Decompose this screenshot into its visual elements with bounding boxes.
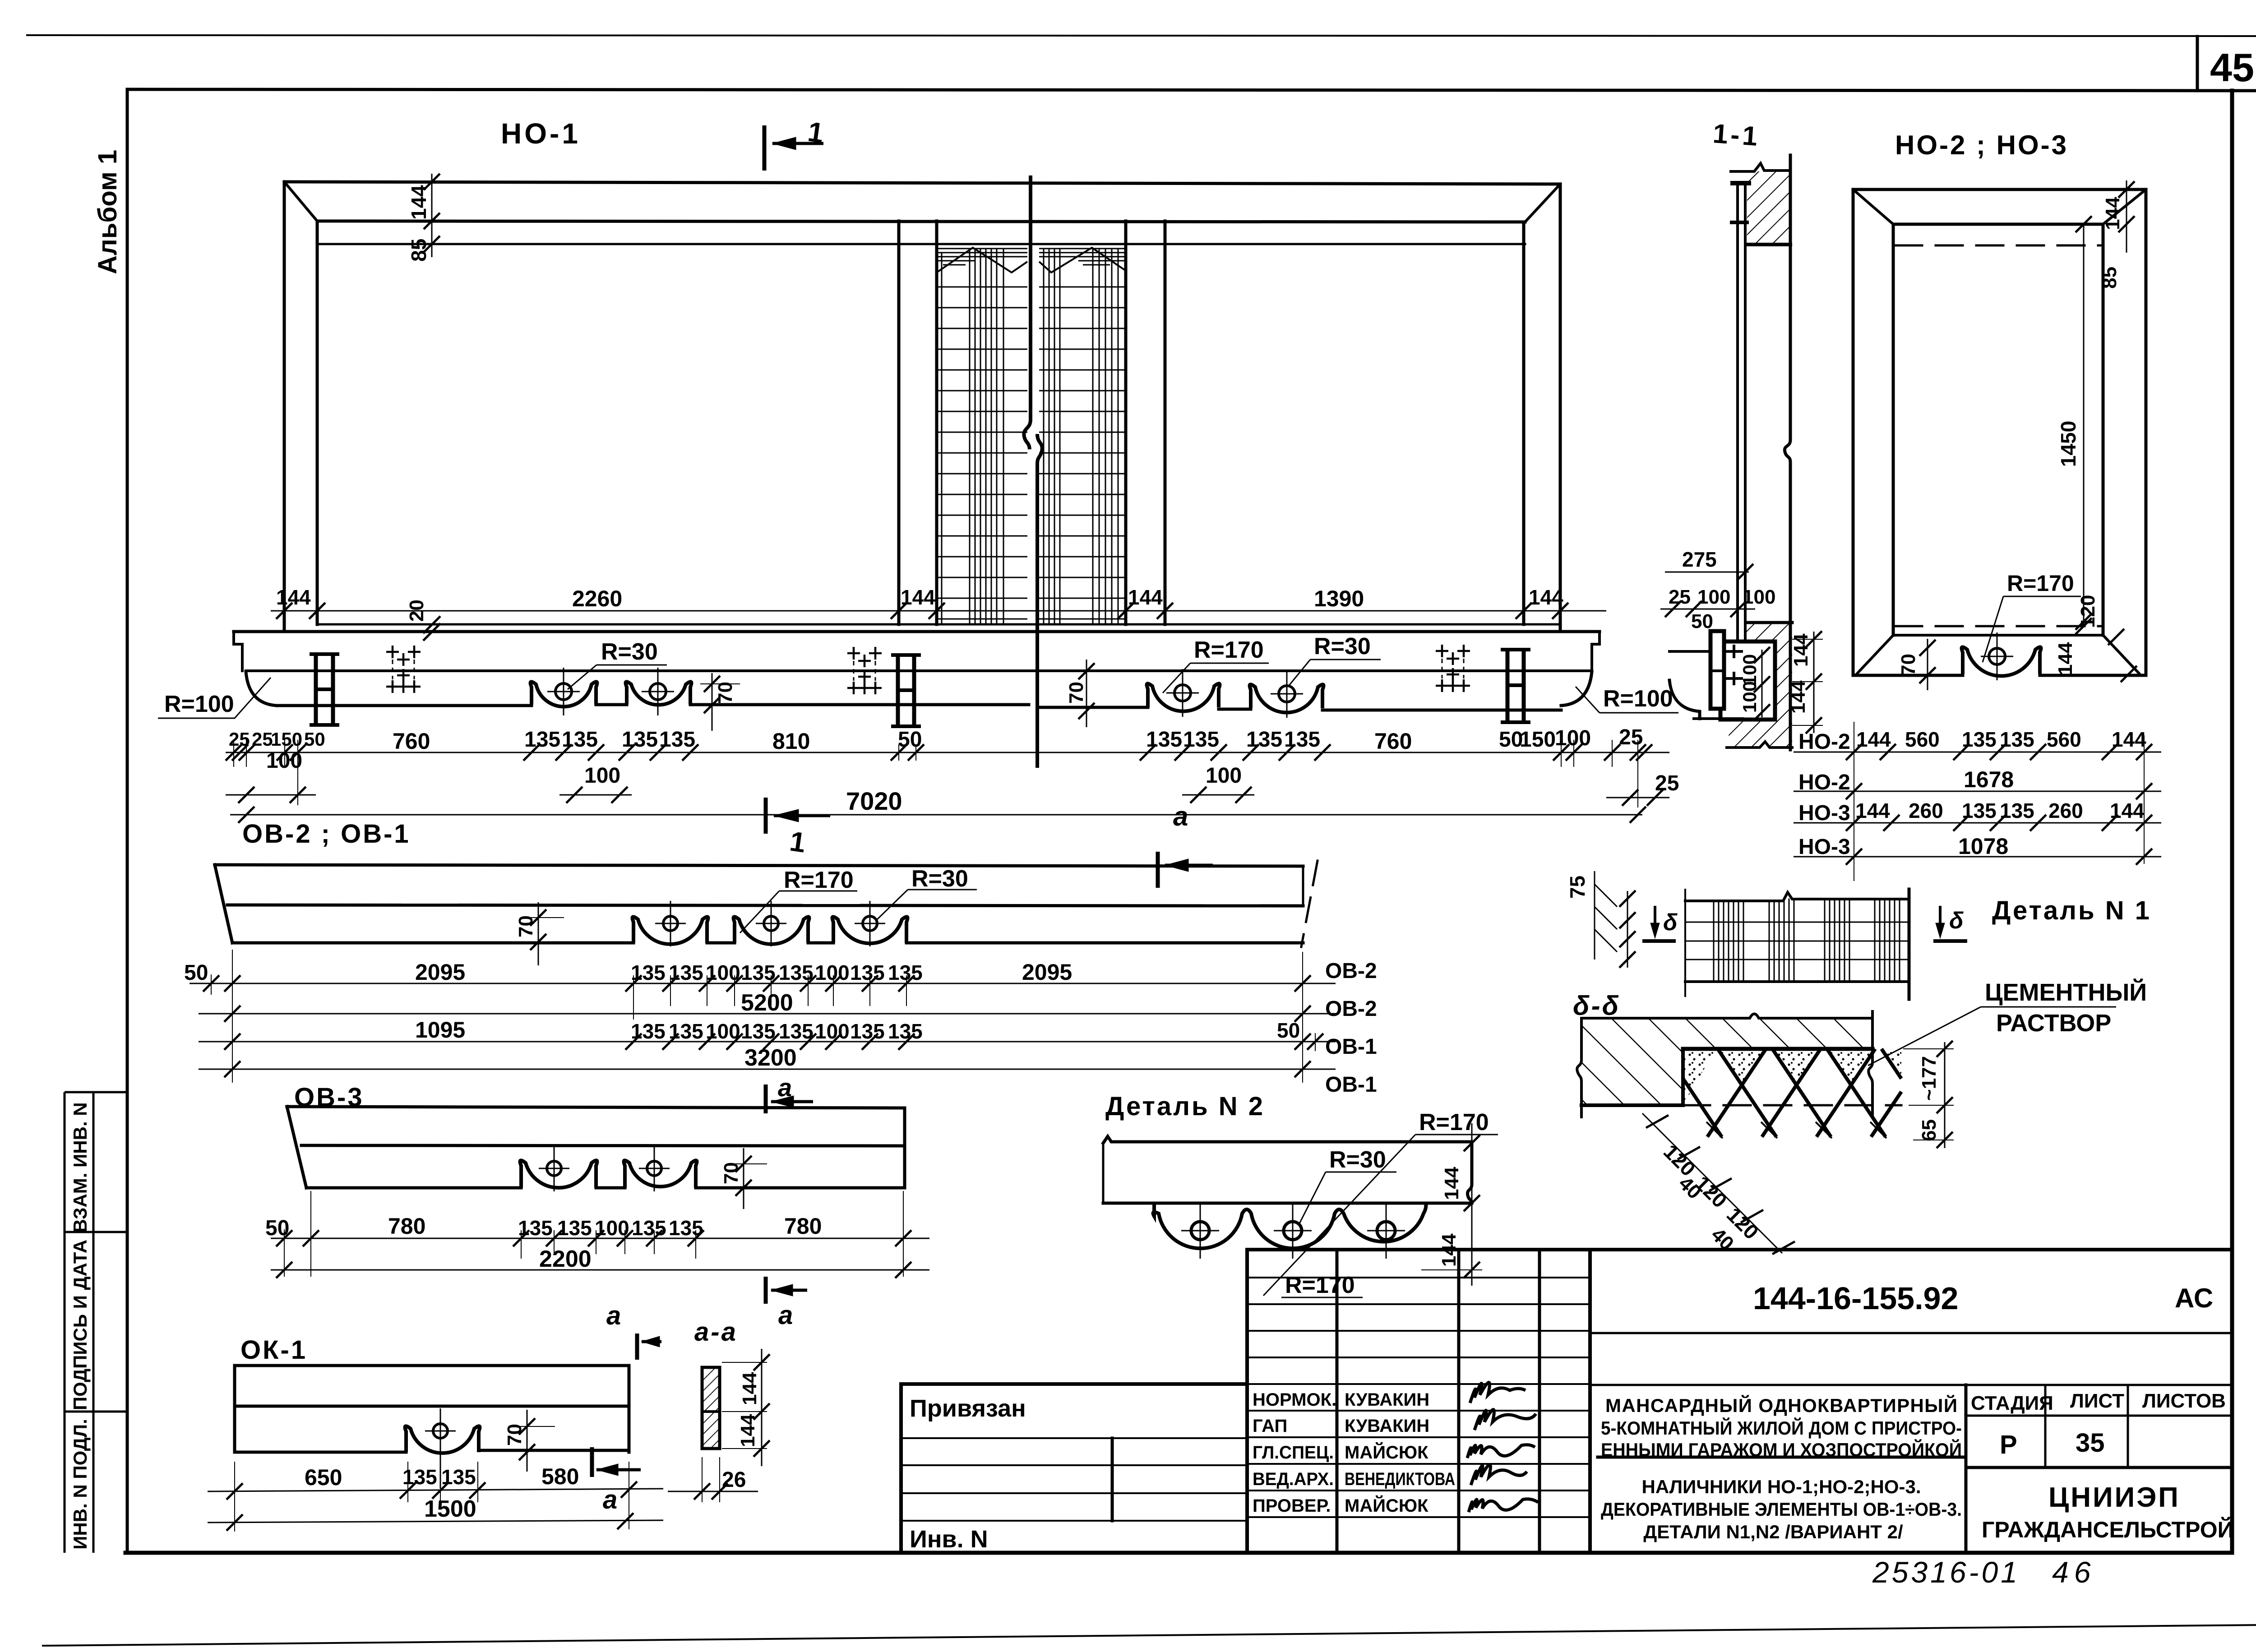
section mark a (OB-3 bottom) <box>766 1277 807 1304</box>
svg-text:560: 560 <box>2047 728 2081 751</box>
clamp right <box>1501 650 1530 722</box>
break line through pier (lower) <box>1037 434 1042 768</box>
row 3 dim line <box>1794 822 2161 824</box>
svg-text:144: 144 <box>407 185 430 220</box>
svg-text:5200: 5200 <box>741 990 793 1016</box>
section mark a (OK-1 bottom) <box>592 1447 641 1477</box>
svg-text:100: 100 <box>815 961 850 984</box>
OB-2 left slant edge <box>215 865 232 943</box>
HO-2 sill scallop <box>1962 647 2041 676</box>
svg-text:100: 100 <box>1739 654 1760 686</box>
svg-text:25: 25 <box>1669 586 1691 608</box>
HO-1 pier jamb vertical (left window right side, outer) <box>897 221 901 624</box>
vertical extension lines <box>1854 722 2144 881</box>
svg-text:144: 144 <box>1529 586 1563 609</box>
svg-text:R=100: R=100 <box>164 691 234 717</box>
1-1 band board rect (white) <box>1720 641 1775 720</box>
dim line B (100s) <box>226 787 1669 806</box>
OB-3 hole 2 <box>639 1146 670 1191</box>
HO-1 85-line <box>317 243 1525 245</box>
N1 right b marker <box>1933 906 1967 941</box>
svg-text:144: 144 <box>737 1414 759 1447</box>
b-b diagonal dim line <box>1642 1113 1795 1254</box>
svg-text:135: 135 <box>557 1216 592 1240</box>
svg-text:135: 135 <box>850 1020 885 1043</box>
mesh panel right: top dense band <box>1039 249 1126 265</box>
svg-text:ПРОВЕР.: ПРОВЕР. <box>1253 1496 1331 1516</box>
OK-1 top edge <box>235 1364 629 1367</box>
N1 left b marker <box>1642 906 1676 941</box>
b-b diamond lattice <box>1684 1049 1901 1137</box>
svg-text:144: 144 <box>2102 197 2124 230</box>
scallop hole 2 <box>642 668 674 715</box>
OB-2 scallop group 3 <box>832 917 908 943</box>
HO-2 1450 dim <box>2076 216 2092 634</box>
1-1 casing board verticals <box>1738 183 1745 649</box>
svg-text:R=170: R=170 <box>1419 1109 1489 1135</box>
svg-text:100: 100 <box>595 1216 629 1240</box>
left margin column lines <box>64 1092 66 1553</box>
svg-text:144: 144 <box>901 586 935 609</box>
HO-2 mitres top <box>1853 189 2146 224</box>
OB-2 70 dim <box>526 902 564 965</box>
svg-text:135: 135 <box>659 728 695 752</box>
svg-text:R=100: R=100 <box>1603 686 1673 712</box>
nail cluster 2 <box>847 647 882 694</box>
OB-3 top edge <box>287 1107 905 1108</box>
svg-text:НО-3: НО-3 <box>1798 801 1850 825</box>
svg-text:135: 135 <box>632 1216 666 1240</box>
svg-text:50: 50 <box>265 1216 289 1240</box>
svg-text:Р: Р <box>2000 1430 2017 1459</box>
svg-text:65: 65 <box>1918 1119 1940 1141</box>
a-a 26 dim <box>668 1457 758 1502</box>
casing bottom line (20-line) <box>319 623 1560 626</box>
svg-text:1078: 1078 <box>1958 834 2008 859</box>
svg-text:135: 135 <box>888 961 923 984</box>
mesh panel left verticals <box>942 249 1003 624</box>
svg-text:650: 650 <box>305 1465 342 1490</box>
svg-text:120: 120 <box>2077 595 2099 628</box>
a-a mid divider <box>702 1410 720 1413</box>
svg-text:50: 50 <box>898 728 922 752</box>
svg-text:135: 135 <box>1284 728 1320 752</box>
svg-text:144: 144 <box>1855 799 1890 822</box>
OB-2 hole 3 <box>855 901 885 946</box>
nail cluster 1 <box>386 646 421 693</box>
svg-text:7020: 7020 <box>846 787 902 815</box>
apron scallop group 1 <box>531 682 597 706</box>
svg-text:ИНВ. N ПОДЛ.: ИНВ. N ПОДЛ. <box>69 1419 91 1550</box>
svg-text:760: 760 <box>393 729 430 754</box>
svg-text:а: а <box>778 1301 793 1330</box>
OB-2 hole 2 <box>756 901 786 946</box>
page number box divider <box>2196 37 2199 91</box>
scallop hole 4 <box>1271 670 1303 718</box>
1-1 sill bottom line <box>1727 742 1792 748</box>
section mark a (OB-3 top) <box>766 1084 813 1113</box>
svg-text:135: 135 <box>441 1465 476 1489</box>
svg-text:25316-01: 25316-01 <box>1872 1555 2020 1589</box>
svg-text:2200: 2200 <box>539 1246 592 1272</box>
b-b left edge with break <box>1577 1018 1581 1117</box>
N1 left extension line <box>1684 890 1686 996</box>
svg-text:~177: ~177 <box>1918 1056 1940 1101</box>
svg-text:144: 144 <box>1856 728 1891 751</box>
svg-text:Инв. N: Инв. N <box>910 1526 988 1553</box>
OB-2 bottom segments <box>232 941 1303 945</box>
HO-2 outer rect <box>1853 189 2146 675</box>
svg-text:144: 144 <box>739 1372 761 1405</box>
signatures <box>1467 1383 1538 1513</box>
svg-text:135: 135 <box>888 1020 923 1043</box>
svg-text:Деталь N 1: Деталь N 1 <box>1992 896 2151 925</box>
mesh panel left horizontals <box>937 287 1027 619</box>
N2 top line <box>1103 1136 1472 1143</box>
dim line A (bottom string) <box>226 740 1669 808</box>
svg-text:144: 144 <box>1787 680 1809 714</box>
svg-text:ОВ-1: ОВ-1 <box>1325 1073 1377 1097</box>
svg-text:144: 144 <box>1441 1167 1463 1200</box>
svg-text:135: 135 <box>631 961 666 984</box>
svg-text:25: 25 <box>252 729 273 750</box>
OB dim row A <box>190 950 1336 1083</box>
svg-text:135: 135 <box>669 1216 703 1240</box>
svg-text:135: 135 <box>669 961 703 984</box>
b-b top line with bump <box>1581 1014 1872 1019</box>
svg-text:АС: АС <box>2175 1283 2213 1313</box>
svg-text:260: 260 <box>1909 799 1943 822</box>
OB-2 scallop group 2 <box>734 917 809 944</box>
OB dim row D <box>199 1061 1336 1077</box>
HO-2 inner bottom line <box>1893 634 2103 637</box>
svg-text:а: а <box>606 1301 621 1330</box>
svg-text:760: 760 <box>1374 729 1412 754</box>
svg-text:100: 100 <box>706 961 740 984</box>
OB-2 right end dashed cut <box>1301 861 1318 947</box>
svg-text:ОВ-2: ОВ-2 <box>1325 959 1377 983</box>
HO-1 top-right mitre <box>1525 184 1560 222</box>
N2 bottom line <box>1103 1202 1426 1205</box>
svg-text:50: 50 <box>1277 1019 1300 1042</box>
apron scallop group 4 <box>1250 684 1324 712</box>
1-1 lintel hatched block <box>1747 171 1790 245</box>
OK-1 scallop <box>405 1426 480 1453</box>
svg-text:ВЗАМ. ИНВ. N: ВЗАМ. ИНВ. N <box>69 1102 91 1232</box>
a-a board section (hatched) <box>702 1367 720 1449</box>
svg-text:85: 85 <box>2099 267 2121 289</box>
mesh panel right zigzag <box>1039 248 1126 272</box>
svg-text:100: 100 <box>815 1020 850 1043</box>
svg-text:25: 25 <box>229 729 250 750</box>
OB-3 dim row 2 (2200) <box>271 1262 929 1278</box>
1-1 wall face vertical <box>1784 155 1790 750</box>
1-1 right 144/144 dim <box>1792 631 1823 734</box>
svg-text:1678: 1678 <box>1964 767 2014 792</box>
right section lines <box>1590 1332 2232 1334</box>
svg-text:R=30: R=30 <box>601 639 658 665</box>
mesh panel right horizontals <box>1039 287 1126 619</box>
svg-text:R=170: R=170 <box>1285 1272 1355 1298</box>
b-b left board edge vertical <box>1681 1049 1685 1105</box>
svg-text:135: 135 <box>1962 799 1997 822</box>
1-1 sill top line <box>1747 621 1792 624</box>
HO-2 inner top line <box>1893 223 2103 226</box>
svg-text:ЕННЫМИ ГАРАЖОМ И ХОЗПОСТРОЙКОЙ: ЕННЫМИ ГАРАЖОМ И ХОЗПОСТРОЙКОЙ <box>1601 1439 1962 1460</box>
svg-text:ОВ-2 ; ОВ-1: ОВ-2 ; ОВ-1 <box>242 819 411 849</box>
70 dim left window <box>700 673 740 731</box>
svg-text:а-а: а-а <box>694 1317 738 1347</box>
scallop hole 3 <box>1166 669 1199 717</box>
svg-text:135: 135 <box>741 961 776 984</box>
svg-text:135: 135 <box>669 1020 703 1043</box>
svg-text:260: 260 <box>2048 799 2083 822</box>
row 1 dim line <box>1794 752 2161 753</box>
svg-text:5-КОМНАТНЫЙ ЖИЛОЙ ДОМ С ПРИСТР: 5-КОМНАТНЫЙ ЖИЛОЙ ДОМ С ПРИСТРО- <box>1601 1417 1962 1439</box>
OK-1 bottom segments <box>235 1450 629 1452</box>
svg-text:100: 100 <box>706 1020 740 1043</box>
svg-text:R=170: R=170 <box>2007 571 2074 596</box>
band bottom segments <box>277 705 1561 710</box>
svg-text:100: 100 <box>1743 586 1775 608</box>
N1 board bottom line <box>1685 980 1909 983</box>
HO-2 dashed 85-line <box>1895 245 2103 247</box>
svg-text:2095: 2095 <box>415 960 465 985</box>
N2 holes <box>1181 1204 1405 1259</box>
HO-1 left jamb outer vertical <box>283 182 286 630</box>
svg-text:R=170: R=170 <box>784 867 854 893</box>
svg-text:ПОДПИСЬ И ДАТА: ПОДПИСЬ И ДАТА <box>69 1240 91 1410</box>
70 dim right window <box>1075 660 1110 727</box>
svg-text:2095: 2095 <box>1022 960 1072 985</box>
svg-text:135: 135 <box>518 1216 553 1240</box>
mesh panel left: top dense band <box>937 249 1027 265</box>
svg-text:1390: 1390 <box>1314 586 1364 611</box>
OB-3 bottom segments <box>306 1186 905 1190</box>
svg-text:100: 100 <box>266 749 302 773</box>
1-1 casing board top cap <box>1733 181 1749 185</box>
OK-1 left edge <box>233 1366 236 1452</box>
OB-3 scallop group 2 <box>624 1160 697 1188</box>
svg-text:150: 150 <box>1520 728 1556 752</box>
svg-text:а: а <box>778 1073 792 1102</box>
svg-text:Альбом 1: Альбом 1 <box>93 150 122 274</box>
svg-text:100: 100 <box>584 764 620 788</box>
dim line 144/2260/144/144/1390/144 <box>271 603 1606 619</box>
1-1 casing level mark <box>1732 221 1747 224</box>
svg-text:135: 135 <box>402 1465 437 1489</box>
svg-text:46: 46 <box>2052 1555 2096 1589</box>
OK-1 mid line <box>235 1405 629 1408</box>
N1 right edge <box>1908 889 1911 999</box>
HO-2 scallop hole <box>1981 632 2013 680</box>
svg-text:780: 780 <box>388 1214 425 1239</box>
svg-text:1450: 1450 <box>2057 421 2080 467</box>
svg-text:135: 135 <box>2000 728 2034 751</box>
svg-text:ОК-1: ОК-1 <box>240 1335 307 1365</box>
svg-text:ГАП: ГАП <box>1253 1416 1287 1436</box>
stadia table <box>1966 1415 2232 1417</box>
svg-text:144: 144 <box>276 586 311 609</box>
N2 scallops <box>1153 1203 1426 1248</box>
1-1 band left end lines <box>1669 651 1743 719</box>
svg-text:МАНСАРДНЫЙ ОДНОКВАРТИРНЫЙ: МАНСАРДНЫЙ ОДНОКВАРТИРНЫЙ <box>1605 1394 1957 1416</box>
svg-text:580: 580 <box>541 1464 579 1489</box>
N2 144/144 dim right <box>1421 1123 1482 1286</box>
1-1 lintel top line with zigzag <box>1731 163 1790 171</box>
svg-text:R=170: R=170 <box>1194 637 1264 663</box>
band mid line <box>246 669 1592 672</box>
svg-text:70: 70 <box>504 1424 526 1446</box>
svg-text:3200: 3200 <box>744 1045 797 1071</box>
OB-2 top edge <box>215 865 1303 866</box>
svg-text:МАЙСЮК: МАЙСЮК <box>1345 1495 1428 1516</box>
svg-text:135: 135 <box>2000 799 2034 822</box>
svg-text:135: 135 <box>1146 728 1182 752</box>
svg-text:35: 35 <box>2076 1428 2105 1458</box>
N1 horizontals <box>1685 922 1909 960</box>
svg-text:R=30: R=30 <box>1314 633 1371 660</box>
svg-text:Привязан: Привязан <box>910 1395 1026 1422</box>
svg-text:ЦНИИЭП: ЦНИИЭП <box>2048 1482 2180 1513</box>
1-1 inner 100/100 dim <box>1754 647 1770 720</box>
svg-text:70: 70 <box>515 915 537 937</box>
band top line <box>234 630 1600 633</box>
svg-text:144: 144 <box>1128 586 1163 609</box>
svg-text:НО-2 ; НО-3: НО-2 ; НО-3 <box>1895 130 2068 160</box>
b-b slab bottom solid left <box>1581 1103 1683 1107</box>
OK-1 dim row 1 <box>208 1462 663 1532</box>
svg-text:144: 144 <box>2112 728 2146 751</box>
OB dim row C <box>199 1033 1336 1051</box>
b-b bottom x marks <box>1706 1122 1886 1138</box>
clamp middle <box>891 655 921 726</box>
svg-text:135: 135 <box>779 961 814 984</box>
1-1 clamp plate <box>1710 631 1724 709</box>
144/85 dimension top-left <box>424 174 440 257</box>
HO-1 pier jamb vertical (inner) <box>935 221 938 624</box>
band right end step <box>1592 632 1600 671</box>
OK-1 dim row 2 (1500) <box>208 1513 663 1531</box>
HO-1 right jamb inner vertical <box>1522 222 1526 624</box>
row 2 dim line <box>1794 791 2161 792</box>
svg-text:135: 135 <box>524 728 560 752</box>
HO-2 dashed line above sill <box>1895 625 2103 628</box>
svg-text:25: 25 <box>1655 771 1679 795</box>
svg-text:100: 100 <box>1697 586 1730 608</box>
svg-text:144: 144 <box>2110 799 2145 822</box>
wall edge line with hatch ticks <box>1594 871 1595 960</box>
HO-1 right jamb outer vertical <box>1559 184 1562 630</box>
svg-text:ОВ-2: ОВ-2 <box>1325 997 1377 1021</box>
svg-text:85: 85 <box>407 239 430 262</box>
svg-text:25: 25 <box>1619 725 1643 749</box>
svg-text:100: 100 <box>1555 726 1591 750</box>
HO-1 inner top line <box>317 221 1525 222</box>
nail cluster 3 <box>1436 645 1470 692</box>
svg-text:144-16-155.92: 144-16-155.92 <box>1753 1281 1958 1316</box>
svg-text:СТАДИЯ: СТАДИЯ <box>1971 1392 2053 1414</box>
1-1 band R=100 end arc <box>1669 680 1700 719</box>
svg-text:КУВАКИН: КУВАКИН <box>1345 1416 1429 1436</box>
mesh decorative panels on pier <box>937 248 1126 624</box>
HO-2 mitres bottom <box>1857 635 2140 674</box>
section mark a (OK-1 top) <box>637 1334 661 1360</box>
N1 board top line with bump <box>1685 892 1909 901</box>
band left end R=100 arc <box>246 672 277 706</box>
svg-text:144: 144 <box>2054 642 2076 675</box>
svg-text:780: 780 <box>784 1214 822 1239</box>
svg-text:135: 135 <box>1183 728 1219 752</box>
OK-1 right edge <box>628 1366 631 1452</box>
section mark a (right of 7020) <box>1158 852 1213 888</box>
paper top edge line <box>27 35 2256 36</box>
1-1 bolts <box>1726 646 1742 684</box>
svg-text:560: 560 <box>1905 728 1940 751</box>
mesh panel left zigzag <box>937 248 1027 272</box>
svg-text:70: 70 <box>714 682 736 704</box>
OB-2 right end vertical <box>1302 866 1304 906</box>
HO-2 inner verticals <box>1893 224 2103 635</box>
title block central grid outer <box>1247 1250 1590 1553</box>
svg-text:45: 45 <box>2210 45 2254 90</box>
OB-3 dim row 1 <box>271 1191 929 1277</box>
privyazan block <box>901 1384 1247 1553</box>
svg-text:ВЕД.АРХ.: ВЕД.АРХ. <box>1253 1469 1334 1489</box>
svg-text:144: 144 <box>1790 633 1812 667</box>
OB-2 mid line <box>227 905 1303 906</box>
svg-text:δ: δ <box>1663 909 1678 936</box>
svg-text:КУВАКИН: КУВАКИН <box>1345 1390 1429 1410</box>
svg-text:1095: 1095 <box>415 1017 465 1043</box>
svg-text:26: 26 <box>722 1468 746 1492</box>
svg-text:70: 70 <box>1065 682 1087 704</box>
dim line C (7020) <box>230 807 1646 823</box>
row 4 dim line <box>1794 856 2161 858</box>
HO-2/HO-3 dim table <box>1794 722 2161 881</box>
svg-text:135: 135 <box>622 728 658 752</box>
svg-text:75: 75 <box>1566 876 1589 899</box>
svg-text:МАЙСЮК: МАЙСЮК <box>1345 1442 1428 1463</box>
OB-3 right end vertical <box>903 1108 906 1188</box>
svg-text:135: 135 <box>741 1020 776 1043</box>
N2 left end <box>1102 1143 1105 1203</box>
b-b dashed level line <box>1683 1104 1901 1107</box>
svg-text:ЦЕМЕНТНЫЙ: ЦЕМЕНТНЫЙ <box>1985 978 2147 1006</box>
paper bottom edge line <box>43 1625 2256 1646</box>
OK-1 hole <box>425 1408 456 1489</box>
svg-text:70: 70 <box>720 1162 742 1184</box>
b-b 65~177 dim <box>1903 1041 1954 1148</box>
HO-1 pier jamb right (outer) <box>1124 221 1128 624</box>
svg-text:70: 70 <box>1897 654 1919 676</box>
svg-text:δ-δ: δ-δ <box>1573 991 1620 1021</box>
OK-1 70 dim <box>515 1410 555 1472</box>
svg-text:150: 150 <box>271 729 302 750</box>
b-b slab hatched area <box>1581 1018 1872 1105</box>
svg-text:R=30: R=30 <box>911 866 968 892</box>
svg-text:НО-3: НО-3 <box>1798 835 1850 859</box>
title block top edge <box>1247 1248 2232 1251</box>
svg-text:135: 135 <box>1246 728 1282 752</box>
HO-1 pier jamb right (inner) <box>1164 221 1167 624</box>
svg-text:НАЛИЧНИКИ НО-1;НО-2;НО-3.: НАЛИЧНИКИ НО-1;НО-2;НО-3. <box>1641 1476 1921 1497</box>
1-1 sill hatched block <box>1727 623 1792 748</box>
OB-3 left slant edge <box>287 1107 306 1188</box>
svg-text:ГЛ.СПЕЦ.: ГЛ.СПЕЦ. <box>1253 1443 1334 1463</box>
svg-text:135: 135 <box>631 1020 666 1043</box>
svg-text:R=30: R=30 <box>1329 1147 1386 1173</box>
